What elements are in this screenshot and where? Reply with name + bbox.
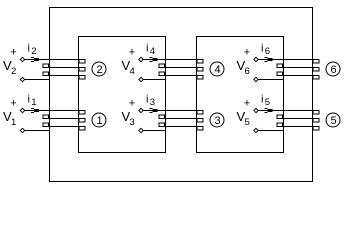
svg-text:i: i [28,94,30,106]
svg-text:6: 6 [330,64,336,76]
svg-text:2: 2 [11,66,16,77]
svg-text:4: 4 [214,64,220,76]
svg-text:1: 1 [96,115,102,127]
svg-text:3: 3 [130,117,135,128]
svg-text:+: + [244,47,250,59]
svg-text:2: 2 [96,64,102,76]
svg-text:+: + [129,98,135,110]
svg-text:+: + [10,47,16,59]
svg-text:1: 1 [11,117,16,128]
svg-text:5: 5 [265,97,270,108]
svg-text:5: 5 [330,115,336,127]
svg-text:i: i [261,43,263,55]
svg-text:i: i [28,43,30,55]
svg-text:3: 3 [214,115,220,127]
svg-text:4: 4 [150,46,155,57]
svg-text:6: 6 [265,46,270,57]
svg-text:+: + [10,98,16,110]
svg-text:i: i [146,43,148,55]
svg-text:1: 1 [31,97,36,108]
svg-text:+: + [129,47,135,59]
svg-text:4: 4 [130,66,135,77]
svg-text:6: 6 [245,66,250,77]
svg-text:i: i [146,94,148,106]
svg-text:3: 3 [150,97,155,108]
svg-text:5: 5 [245,117,250,128]
svg-text:+: + [244,98,250,110]
svg-text:i: i [261,94,263,106]
svg-text:2: 2 [31,46,36,57]
